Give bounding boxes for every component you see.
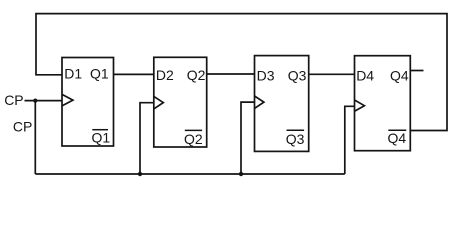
svg-text:Q2: Q2 [184,131,203,147]
wire feedback Q4bar to D1 [36,14,447,131]
wire Q2 to D3 [207,73,255,75]
U2 Q2bar overline [185,129,202,131]
U3 Q3bar overline [287,129,305,131]
D flip-flop U3 body [255,56,309,152]
D flip-flop U2 body [154,57,207,147]
svg-text:D1: D1 [64,65,82,81]
junction dot bus at U3 riser [239,172,243,176]
wire CP drop to clock bus [34,101,36,174]
svg-text:Q4: Q4 [388,130,407,146]
U4 Q4bar overline [388,129,406,131]
svg-text:Q3: Q3 [286,131,305,147]
wire Q3 to D4 [309,73,355,75]
U4 clock triangle [355,100,365,111]
U1 Q1bar overline [92,129,108,131]
svg-text:D3: D3 [257,68,275,84]
wire clock bus [35,173,345,175]
svg-text:CP: CP [4,92,23,108]
junction dot bus at U2 riser [138,172,142,176]
wire bus riser to U3 clock [241,102,255,174]
svg-text:D4: D4 [356,68,374,84]
U3 clock triangle [255,96,264,108]
svg-text:Q3: Q3 [288,68,307,84]
svg-text:CP: CP [13,118,32,134]
wire CP input to U1 clock [25,100,63,102]
wire bus riser to U2 clock [140,103,154,174]
svg-text:D2: D2 [156,67,174,83]
U1 clock triangle [62,94,73,106]
wire Q4 output stub [410,70,423,72]
svg-text:Q2: Q2 [187,67,206,83]
U2 clock triangle [154,96,164,109]
D flip-flop U4 body [355,56,411,151]
junction dot CP node [33,99,37,103]
svg-text:Q1: Q1 [90,65,109,81]
wire Q1 to D2 [114,73,154,75]
svg-text:Q1: Q1 [92,129,111,145]
svg-text:Q4: Q4 [390,68,409,84]
wire bus riser to U4 clock [345,106,355,174]
D flip-flop U1 body [62,58,114,147]
